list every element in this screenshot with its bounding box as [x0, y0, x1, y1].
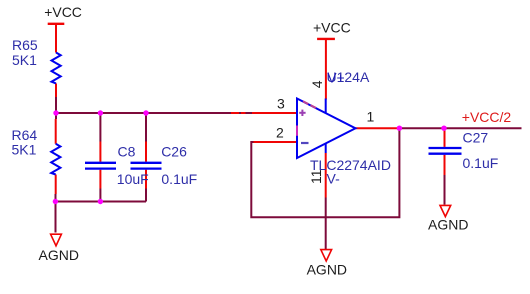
svg-text:5K1: 5K1 — [12, 52, 37, 68]
svg-text:10uF: 10uF — [117, 171, 149, 187]
svg-text:AGND: AGND — [428, 217, 468, 233]
svg-text:4: 4 — [309, 80, 325, 88]
svg-text:C27: C27 — [463, 130, 489, 146]
svg-text:+VCC/2: +VCC/2 — [462, 109, 512, 125]
svg-text:C26: C26 — [161, 143, 187, 159]
svg-text:C8: C8 — [118, 143, 136, 159]
svg-text:+VCC: +VCC — [44, 4, 82, 20]
svg-text:+VCC: +VCC — [313, 20, 351, 36]
svg-text:1: 1 — [367, 108, 375, 124]
svg-text:5K1: 5K1 — [12, 142, 37, 158]
svg-text:TLC2274AID: TLC2274AID — [310, 157, 391, 173]
svg-text:V-: V- — [327, 171, 341, 187]
svg-text:0.1uF: 0.1uF — [161, 171, 197, 187]
svg-text:AGND: AGND — [39, 247, 79, 263]
svg-text:R65: R65 — [12, 37, 38, 53]
svg-text:R64: R64 — [12, 127, 38, 143]
svg-text:3: 3 — [277, 96, 285, 112]
svg-text:AGND: AGND — [307, 262, 347, 278]
svg-text:0.1uF: 0.1uF — [463, 155, 499, 171]
svg-text:2: 2 — [276, 124, 284, 140]
svg-text:V+: V+ — [327, 69, 345, 85]
